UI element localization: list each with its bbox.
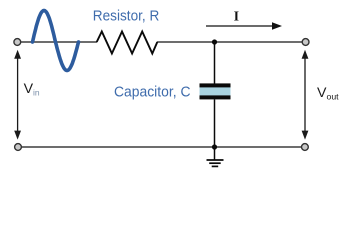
svg-text:in: in	[33, 87, 40, 97]
ground	[207, 147, 224, 166]
wire top-right segment	[157, 41, 302, 43]
capacitor C dielectric fill	[200, 86, 231, 97]
svg-text:out: out	[327, 91, 340, 101]
Vout measurement arrow	[302, 50, 309, 140]
capacitor C bottom plate	[200, 95, 231, 99]
svg-text:Resistor, R: Resistor, R	[93, 8, 160, 24]
node terminal bottom-right	[302, 144, 309, 151]
node terminal top-right	[302, 39, 309, 46]
current arrow I	[206, 25, 274, 27]
wire capacitor branch lower	[214, 99, 216, 147]
svg-text:Capacitor, C: Capacitor, C	[114, 84, 191, 100]
node junction bottom	[212, 144, 217, 149]
resistor R	[97, 32, 158, 54]
node terminal bottom-left	[15, 144, 22, 151]
ac source V1 sine wave	[33, 11, 79, 71]
Vin measurement arrow	[14, 50, 21, 140]
svg-text:V: V	[317, 85, 327, 101]
capacitor C top plate	[200, 83, 231, 87]
wire bottom segment	[21, 146, 301, 148]
node junction top	[212, 39, 217, 44]
wire top-left segment	[21, 41, 98, 43]
svg-text:I: I	[234, 8, 239, 23]
wire capacitor branch upper	[214, 42, 216, 84]
node terminal top-left	[14, 39, 21, 46]
